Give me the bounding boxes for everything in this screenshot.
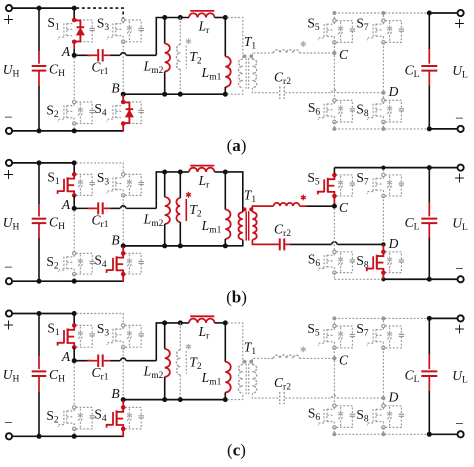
wire node C to S6 (dashed): [333, 55, 335, 100]
transistor S4 dashed capacitor branch: [125, 102, 141, 110]
transistor S8 terminals: [382, 99, 385, 102]
secondary leakage inductor (dashed): [274, 50, 300, 53]
transistor S3 terminals: [122, 324, 125, 327]
wire node D to S8: [382, 244, 384, 251]
wire riser to top line: [156, 172, 189, 208]
secondary top rail: [334, 167, 429, 169]
bottom line node B to Lm1: [123, 245, 225, 247]
secondary leakage inductor: [274, 203, 300, 206]
wire node A to S2 (dashed): [73, 58, 75, 103]
svg-text:(a): (a): [227, 136, 247, 155]
transistor S2 terminals: [73, 406, 76, 409]
junction bottom rail / S8 leg: [381, 127, 385, 131]
transformer T2: [179, 172, 181, 198]
svg-text:−: −: [455, 261, 463, 277]
wire Cr1 to riser: [104, 54, 111, 56]
transistor S4 (on) red MOSFET symbol: [117, 253, 124, 257]
transistor S4 dashed body diode and capacitor: [125, 407, 141, 415]
node C: [332, 204, 337, 209]
svg-text:−: −: [455, 416, 463, 432]
wire top rail CL to output terminal: [429, 12, 457, 14]
output terminal + (circle): [458, 165, 464, 171]
transistor S7 terminals: [382, 173, 385, 176]
wire coil to node C (dashed): [300, 52, 335, 54]
capacitor Cr1: [97, 49, 99, 61]
secondary bottom rail: [334, 433, 429, 435]
wire bottom line to T1 primary (dashed): [227, 88, 243, 95]
junction bottom line / T2: [178, 92, 183, 97]
transformer T2: [179, 18, 181, 45]
svg-text:C: C: [339, 352, 349, 367]
inductor Lr core bar: [190, 165, 214, 167]
top rail wire: [12, 162, 74, 164]
wire S8 to bottom rail (dashed): [382, 427, 384, 434]
inductor Lr: [189, 13, 215, 17]
transistor S3 (off, dashed): [112, 23, 114, 37]
wire top rail CL to output terminal: [429, 317, 457, 319]
wire top rail to S3 (dashed): [76, 314, 123, 326]
transistor S8 terminals: [382, 404, 385, 407]
bottom rail wire: [12, 435, 123, 437]
junction bottom line / T2: [178, 397, 183, 402]
wire S8 to bottom rail (dashed): [382, 122, 384, 129]
wire node D to S8 (dashed): [382, 93, 384, 101]
wire riser to top line: [156, 18, 189, 56]
wire T1 secondary bottom to Cr2 (dashed): [252, 88, 278, 93]
junction top line / Lm2: [162, 320, 167, 325]
wire top rail to S3 (dashed): [76, 8, 123, 20]
inductor Lm1: [224, 323, 226, 362]
output terminal − (circle): [458, 276, 464, 282]
corner dot top rail / S5 leg: [332, 316, 336, 320]
wire node C to S6 (dashed): [333, 208, 335, 251]
wire S6 to bottom rail (dashed): [333, 122, 335, 129]
junction bottom rail / CL: [427, 277, 432, 282]
inductor Lm2: [164, 18, 166, 44]
transistor S5 (off, dashed): [323, 24, 325, 38]
svg-text:D: D: [388, 390, 399, 405]
secondary top rail: [334, 317, 429, 319]
junction bottom rail / CH: [37, 434, 42, 439]
wire top rail to S7 (dashed): [382, 320, 384, 326]
junction top rail / S7 leg: [381, 316, 385, 320]
transistor S1 (on) red MOSFET symbol: [68, 174, 75, 178]
junction top line / T2: [178, 15, 183, 20]
wire node A to Cr1: [74, 207, 92, 209]
junction bottom rail / CH: [37, 128, 42, 133]
node A: [72, 358, 77, 363]
bottom rail wire: [12, 130, 123, 132]
wire S7 to node D (dashed): [382, 196, 384, 242]
top rail wire: [12, 7, 74, 9]
output terminal − (circle): [458, 126, 464, 132]
junction bottom rail / S8 leg: [381, 277, 385, 281]
output terminal + (circle): [458, 10, 464, 16]
transistor S1 dashed capacitor branch: [76, 20, 92, 28]
wire node B to S4: [122, 246, 124, 254]
transistor S3 terminals: [122, 173, 125, 176]
node A: [72, 206, 77, 211]
junction top line / Lm2: [162, 169, 167, 174]
wire S6 to bottom rail (dashed): [333, 273, 335, 280]
transistor S7 (off, dashed): [372, 329, 374, 343]
output terminal + (circle): [458, 315, 464, 321]
wire Lr to Lm1 top: [215, 322, 226, 324]
junction bottom line / Lm1: [223, 397, 228, 402]
transformer T1 secondary winding (dashed): [252, 365, 256, 394]
wire S2 to bottom rail (dashed): [73, 274, 75, 279]
svg-text:B: B: [111, 386, 119, 401]
junction top rail / CH: [37, 6, 42, 11]
transistor S7 (off, dashed): [372, 178, 374, 191]
wire T1 secondary bottom to Cr2: [252, 240, 278, 245]
inductor Lr core bar: [190, 10, 214, 12]
svg-text:−: −: [455, 111, 463, 127]
top rail wire: [12, 313, 74, 315]
capacitor CH: [38, 8, 40, 51]
junction bottom line / Lm1: [223, 92, 228, 97]
wire hop over S3 leg: [121, 206, 126, 209]
svg-text:A: A: [61, 197, 71, 212]
node D: [381, 396, 385, 400]
svg-text:D: D: [388, 236, 399, 251]
transistor S4 (on) red MOSFET symbol: [117, 407, 124, 411]
inductor Lr core bar: [190, 315, 214, 317]
svg-text:−: −: [4, 110, 12, 126]
wire S4 to bottom rail: [122, 429, 124, 437]
capacitor Cr1: [97, 355, 99, 367]
wire top rail to S1: [73, 163, 75, 174]
junction top line / T2: [178, 169, 183, 174]
transformer T1 core: [245, 211, 247, 240]
wire hop over C leg (dashed): [332, 395, 337, 398]
wire top rail CL to output terminal: [429, 167, 457, 169]
wire riser to top line: [156, 323, 189, 361]
transistor S8 (on) red MOSFET symbol: [377, 252, 384, 256]
capacitor CH: [38, 163, 40, 204]
wire S3 to node B (dashed): [122, 347, 124, 397]
transformer T1 polarity dots: [243, 54, 247, 58]
svg-text:A: A: [61, 349, 71, 364]
svg-text:+: +: [3, 316, 14, 337]
transistor S2 (off, dashed): [63, 105, 65, 119]
svg-text:B: B: [111, 81, 119, 96]
transistor S6 terminals: [333, 99, 336, 102]
wire Cr2 to node D (dashed): [285, 397, 331, 399]
transformer T1 core (dashed): [245, 364, 247, 395]
transformer T1 primary winding (dashed): [238, 365, 242, 394]
junction top rail / leg S1: [72, 160, 77, 165]
inductor Lr: [189, 319, 215, 323]
junction bottom line / Lm2: [162, 243, 167, 248]
wire node A to Cr1: [74, 54, 92, 56]
transistor S6 terminals: [333, 404, 336, 407]
wire top line to T1 primary (dashed): [227, 18, 243, 60]
transistor S4 terminals: [121, 251, 126, 256]
corner dot top rail / S5 leg: [332, 11, 336, 15]
wire S4 to bottom rail: [122, 124, 124, 132]
wire hop over C leg (dashed): [332, 90, 337, 93]
transistor S8 dashed body diode and capacitor: [385, 252, 401, 260]
output terminal − (circle): [458, 431, 464, 437]
svg-text:B: B: [111, 232, 119, 247]
capacitor Cr2 (dashed): [279, 392, 281, 404]
bottom rail wire: [12, 280, 123, 282]
junction top rail / CL: [427, 316, 432, 321]
input terminal − (circle): [6, 433, 12, 439]
secondary bottom rail: [334, 278, 381, 280]
capacitor Cr2 (dashed): [279, 87, 281, 99]
transistor S2 terminals: [73, 252, 76, 255]
transistor S7 terminals: [382, 19, 385, 22]
wire node B to S4: [122, 400, 124, 408]
transistor S1 dashed body diode and capacitor: [76, 325, 92, 333]
secondary leakage inductor (dashed): [274, 355, 300, 358]
transistor S6 (off, dashed): [323, 409, 325, 423]
wire S1 to node A: [73, 42, 75, 49]
transistor S7 terminals: [382, 324, 385, 327]
transistor S2 (off, dashed): [63, 411, 65, 425]
capacitor CL: [428, 13, 430, 49]
wire bottom line to T1 primary (dashed): [227, 393, 243, 400]
wire S4 to bottom rail: [122, 274, 124, 282]
node D: [381, 242, 385, 246]
transistor S3 terminals: [122, 18, 125, 21]
transistor S8 (off, dashed): [372, 409, 374, 423]
wire bottom rail CL to output terminal: [429, 278, 457, 280]
wire Lr to Lm1 top: [215, 171, 226, 173]
wire S3 to node B (dashed): [122, 195, 124, 243]
junction bottom line / Lm2: [162, 92, 167, 97]
wire S1 to node A: [73, 195, 75, 208]
junction bottom rail / S8 leg: [381, 432, 385, 436]
diode of S4 (conducting, red): [123, 102, 129, 123]
wire Cr1 to riser: [104, 360, 111, 362]
transistor S8 terminals: [381, 250, 386, 255]
secondary top rail: [334, 12, 429, 14]
wire node B to S4: [122, 94, 124, 102]
svg-text:C: C: [339, 200, 349, 215]
transistor S5 dashed body diode and capacitor: [336, 175, 352, 183]
junction top rail / leg S1: [72, 6, 77, 11]
transformer T1 polarity dots: [243, 360, 247, 364]
wire S7 to node D (dashed): [382, 42, 384, 90]
wire S3 to node B (dashed): [122, 42, 124, 92]
capacitor Cr2: [279, 238, 281, 250]
node B: [121, 92, 126, 97]
svg-text:−: −: [4, 260, 12, 276]
junction bottom line / Lm1: [223, 243, 228, 248]
svg-text:−: −: [4, 415, 12, 431]
transistor S5 (off, dashed): [323, 329, 325, 343]
capacitor CL: [428, 168, 430, 203]
secondary bottom rail: [334, 128, 429, 130]
node B: [121, 243, 126, 248]
junction top rail / CH: [37, 311, 42, 316]
capacitor CH: [38, 314, 40, 357]
transistor S1 dashed body diode and capacitor: [76, 174, 92, 182]
capacitor Cr1: [97, 202, 99, 214]
junction top rail / S7 leg: [381, 166, 385, 170]
wire S6 to bottom rail (dashed): [333, 427, 335, 434]
junction top line / Lm1: [223, 15, 228, 20]
wire Cr1 to riser: [104, 207, 111, 209]
transistor S5 terminals: [332, 173, 337, 178]
wire top line to T1 primary (dashed): [227, 323, 243, 365]
junction top rail / CH: [37, 160, 42, 165]
inductor Lm2: [164, 172, 166, 197]
wire S8 to bottom rail: [382, 273, 384, 280]
transistor S1 terminals: [72, 323, 77, 328]
transistor S5 terminals: [333, 324, 336, 327]
svg-text:A: A: [61, 44, 71, 59]
node B: [121, 397, 126, 402]
svg-text:+: +: [454, 169, 465, 190]
wire S5 to node C: [333, 196, 335, 206]
transistor S4 terminals: [121, 405, 126, 410]
input terminal − (circle): [6, 278, 12, 284]
wire hop over C leg: [332, 242, 337, 245]
wire top rail to S7 (dashed): [382, 15, 384, 21]
wire top line to T1 primary: [225, 172, 243, 212]
wire S5 to node C (dashed): [333, 348, 335, 359]
wire Lr to Lm1 top: [215, 17, 226, 19]
transistor S4 dashed body diode and capacitor: [125, 253, 141, 261]
transistor S3 (off, dashed): [112, 329, 114, 343]
wire node A to S2 (dashed): [73, 211, 75, 254]
transistor S2 terminals: [73, 100, 76, 103]
transformer T1 secondary winding: [252, 212, 256, 239]
svg-text:(c): (c): [227, 441, 246, 460]
svg-text:+: +: [3, 165, 14, 186]
wire top rail to S3 (dashed): [76, 163, 123, 174]
wire coil to node C (dashed): [300, 357, 335, 359]
wire hop over S3 leg: [121, 53, 126, 56]
junction bottom rail / CH: [37, 279, 42, 284]
wire top rail to S1: [73, 8, 75, 20]
svg-text:+: +: [3, 10, 14, 31]
bottom line node B to Lm1: [123, 93, 225, 95]
star mark secondary: [301, 195, 306, 201]
wire coil to node C: [307, 205, 335, 207]
wire S7 to node D (dashed): [382, 348, 384, 396]
transistor S6 terminals: [333, 250, 336, 253]
transistor S5 (on) red MOSFET symbol: [328, 175, 335, 179]
svg-text:D: D: [388, 84, 399, 99]
transistor S1 MOSFET (off, dashed): [63, 23, 65, 37]
transformer T1 secondary winding (dashed): [252, 59, 256, 87]
svg-text:C: C: [339, 47, 349, 62]
wire bottom line to T1 primary: [225, 240, 243, 246]
wire T1 secondary to output coil: [252, 206, 273, 212]
transistor S6 (off, dashed): [323, 255, 325, 268]
node A: [72, 53, 77, 58]
wire S2 to bottom rail (dashed): [73, 124, 75, 129]
inductor Lm1: [224, 172, 226, 210]
transistor S1 (on) red MOSFET symbol: [68, 325, 75, 329]
transformer T1 core (dashed): [245, 58, 247, 88]
wire top rail to S5 (dashed): [333, 318, 335, 326]
wire bottom rail CL to output terminal: [429, 433, 457, 435]
svg-text:+: +: [454, 14, 465, 35]
transformer T2: [179, 323, 181, 350]
node C: [332, 51, 336, 55]
input terminal + (circle): [6, 310, 12, 316]
svg-text:+: +: [454, 319, 465, 340]
junction top line / Lm1: [223, 169, 228, 174]
junction bottom rail / CL: [427, 126, 432, 131]
input terminal + (circle): [6, 160, 12, 166]
inductor Lm1: [224, 18, 226, 57]
wire hop over S3 leg: [121, 358, 126, 361]
transistor S8 (off, dashed): [372, 104, 374, 118]
wire top rail to S1: [73, 314, 75, 326]
transformer T1 primary winding (dashed): [238, 59, 242, 87]
capacitor CL: [428, 318, 430, 354]
wire S2 to bottom rail (dashed): [73, 429, 75, 434]
wire S1 to node A: [73, 347, 75, 361]
wire node A to S2 (dashed): [73, 363, 75, 408]
junction bottom rail / leg S2: [72, 128, 77, 133]
transistor S7 (off, dashed): [372, 24, 374, 38]
inductor Lr: [189, 168, 215, 172]
wire node C to S6 (dashed): [333, 361, 335, 406]
junction top rail / leg S1: [72, 311, 77, 316]
wire node A to Cr1: [74, 360, 92, 362]
transistor S3 (off, dashed): [112, 178, 114, 191]
wire bottom rail CL to output terminal: [429, 128, 457, 130]
transistor S5 terminals: [333, 19, 336, 22]
junction bottom rail / leg S2: [72, 434, 77, 439]
svg-text:(b): (b): [226, 287, 247, 306]
transformer T1 polarity dots: [243, 207, 247, 211]
transistor S1 terminals: [72, 172, 77, 177]
junction bottom line / T2: [178, 243, 183, 248]
transistor S4 MOSFET (off, dashed): [112, 105, 114, 119]
junction bottom line / Lm2: [162, 397, 167, 402]
wire top rail to S7 (dashed): [382, 170, 384, 175]
wire Cr2 to node D (dashed): [285, 92, 331, 94]
input terminal − (circle): [6, 128, 12, 134]
wire T1 secondary to output coil (dashed): [252, 53, 273, 59]
transformer T1 primary winding: [238, 212, 242, 239]
junction top line / Lm2: [162, 15, 167, 20]
junction top line / T2: [178, 320, 183, 325]
star mark secondary: [301, 41, 306, 47]
junction top rail / S7 leg: [381, 11, 385, 15]
star mark secondary: [301, 347, 306, 353]
junction bottom rail / CL: [427, 432, 432, 437]
wire Cr2 to node D: [285, 243, 290, 245]
input terminal + (circle): [6, 5, 12, 11]
wire S5 to node C (dashed): [333, 42, 335, 53]
wire T1 secondary bottom to Cr2 (dashed): [252, 393, 278, 398]
wire top rail to S5 (dashed): [333, 13, 335, 21]
junction top rail / CL: [427, 11, 432, 16]
junction bottom rail / leg S2: [72, 279, 77, 284]
bottom line node B to Lm1: [123, 399, 225, 401]
wire node D to S8 (dashed): [382, 398, 384, 406]
node D: [381, 91, 385, 95]
transistor S6 (off, dashed): [323, 104, 325, 118]
transistor S2 (off, dashed): [63, 257, 65, 270]
junction top rail / CL: [427, 165, 432, 170]
transistor S1 terminals: [72, 18, 77, 23]
corner dot bottom rail / S6 leg: [332, 127, 336, 131]
node C: [332, 356, 336, 360]
inductor Lm2: [164, 323, 166, 349]
transistor S4 terminals: [121, 100, 126, 105]
